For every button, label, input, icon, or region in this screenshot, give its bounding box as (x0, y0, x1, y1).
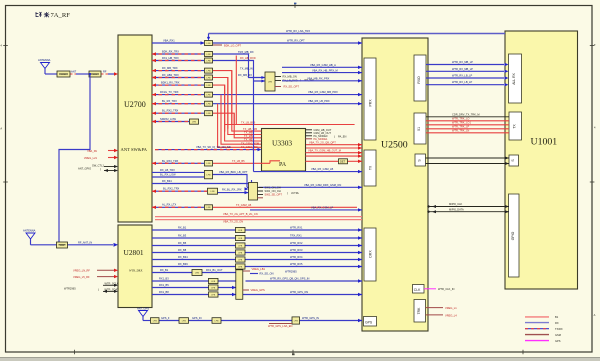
U2700 supply pin VBAT (87, 149, 118, 153)
svg-text:SW2_SD_OPT: SW2_SD_OPT (265, 193, 283, 197)
svg-text:VBA_MB_RX_PRX: VBA_MB_RX_PRX (307, 76, 330, 80)
filter rowTXLB (205, 205, 213, 210)
svg-text:ANT SW&PA: ANT SW&PA (121, 147, 148, 152)
filter drx3 (236, 243, 246, 248)
svg-text:DRX: DRX (369, 250, 373, 258)
IC U2500 transceiver block (362, 38, 428, 331)
frame border crossing ticks (3, 45, 8, 47)
svg-text:LFB: LFB (238, 245, 243, 247)
svg-text:GPS_IN: GPS_IN (192, 316, 202, 320)
svg-text:RX_MB_TRX: RX_MB_TRX (162, 66, 178, 70)
legend line RX (525, 322, 549, 324)
U2801 SPI pins (64, 281, 119, 293)
svg-text:DET: DET (340, 160, 346, 164)
svg-text:}: } (334, 135, 335, 139)
filter rowLB (205, 161, 213, 166)
wire DRX row4 (152, 248, 362, 254)
svg-text:TX/RX: TX/RX (555, 327, 563, 331)
U2500 port X1 (414, 113, 426, 144)
U2801 supply pin 1 (73, 269, 118, 273)
svg-text:AL_RX_LTX: AL_RX_LTX (162, 203, 176, 207)
svg-text:U3303: U3303 (272, 139, 292, 148)
filter rowB8 (208, 188, 218, 194)
svg-text:LFB: LFB (206, 174, 211, 176)
svg-text:U2700: U2700 (124, 100, 146, 109)
wire TX IQ bundle to U1001 (426, 112, 509, 133)
svg-text:LFB: LFB (206, 85, 211, 87)
svg-text:}: } (287, 191, 288, 195)
svg-text:LFB: LFB (206, 113, 211, 115)
svg-text:LFB: LFB (206, 43, 211, 45)
svg-text:LFB: LFB (206, 104, 211, 106)
legend line TXRX (525, 328, 549, 330)
svg-text:RX_SD_ON: RX_SD_ON (260, 272, 274, 276)
filter drx1 (236, 227, 246, 232)
IC U3303 power amplifier block (262, 129, 306, 172)
U2500 port TRK (414, 300, 426, 323)
wire RX LB2 row pair (152, 168, 249, 191)
filter FL2702 (89, 71, 101, 77)
wire PRX feed 2 (282, 68, 362, 74)
wire DRX row1 (152, 226, 362, 232)
svg-text:WTR_TRK_LO: WTR_TRK_LO (452, 117, 469, 121)
filter gps1 (151, 318, 160, 324)
svg-text:WTR_CLK_IN: WTR_CLK_IN (438, 287, 455, 291)
svg-text:LFB: LFB (206, 77, 211, 79)
svg-text:WTR_RX_LB_LP: WTR_RX_LB_LP (452, 80, 472, 84)
svg-text:ANT: ANT (71, 70, 77, 74)
wire DRX aux row c (152, 283, 236, 289)
svg-text:WTR_RX3: WTR_RX3 (290, 248, 303, 252)
wire PA feedback pair (306, 149, 363, 158)
svg-text:SW2_ON_OH: SW2_ON_OH (265, 189, 281, 193)
svg-text:LFB: LFB (211, 281, 216, 283)
svg-text:VBA_RX_GSM_MB_PRX: VBA_RX_GSM_MB_PRX (308, 90, 338, 94)
svg-text:PA_MODE1: PA_MODE1 (314, 137, 328, 141)
svg-text:WTR_GPS_LNA_EN: WTR_GPS_LNA_EN (268, 324, 292, 328)
wire U2700 row1 (152, 37, 241, 48)
svg-text:RX1_HB_TRX: RX1_HB_TRX (162, 56, 179, 60)
svg-text:U2500: U2500 (381, 140, 408, 151)
svg-text:VREG_GPS: VREG_GPS (251, 288, 266, 292)
filter rowLB2 tall (205, 170, 213, 178)
wire WTR RX top bundle 2 (426, 67, 509, 73)
svg-text:LFB: LFB (210, 191, 215, 193)
wire U2700 row2 diff pair (152, 49, 265, 77)
svg-text:GPS: GPS (555, 339, 561, 343)
wire TX IQ dashed control (155, 145, 262, 151)
wire VBA TX APT pair (306, 140, 362, 149)
svg-text:{: { (98, 288, 99, 292)
svg-text:WTR_RX5: WTR_RX5 (290, 262, 303, 266)
U2500 port GPS (364, 317, 377, 327)
wire GPS chain (143, 316, 362, 322)
frame zone tick top (294, 3, 296, 5)
antenna ANT2801 diversity (23, 229, 36, 245)
svg-text:LFB: LFB (206, 207, 211, 209)
svg-text:VREG_L1: VREG_L1 (445, 306, 457, 310)
svg-text:LFB: LFB (238, 259, 243, 261)
U1001 port TX (509, 112, 522, 140)
U2500 port RXOUT (414, 55, 426, 101)
filter row1 (205, 41, 213, 46)
svg-text:A: A (0, 127, 2, 131)
svg-text:LFB: LFB (195, 272, 200, 274)
filter row8 (205, 101, 213, 106)
PA output pins (306, 128, 347, 141)
svg-text:LFB: LFB (238, 252, 243, 254)
svg-text:RX_SD_OPT: RX_SD_OPT (284, 85, 300, 89)
svg-text:WTR_GPS_IN: WTR_GPS_IN (302, 316, 319, 320)
svg-text:WTR_DRX: WTR_DRX (129, 270, 143, 273)
svg-text:WTR_RX_MB_LP: WTR_RX_MB_LP (452, 60, 473, 64)
svg-text:RX_B39: RX_B39 (178, 262, 188, 266)
svg-text:TX_MB_IN: TX_MB_IN (240, 66, 253, 70)
svg-text:SW_CTL1: SW_CTL1 (92, 163, 105, 167)
svg-text:RX_B34: RX_B34 (178, 255, 188, 259)
wire DRX aux row a (152, 267, 297, 276)
svg-text:VBA_RX_GSM_DRX_GSM_ON: VBA_RX_GSM_DRX_GSM_ON (304, 183, 341, 187)
svg-text:LFB: LFB (238, 266, 243, 268)
svg-text:RXO: RXO (417, 76, 421, 84)
wire B8 TRX row (152, 187, 249, 195)
filter drxa (192, 270, 202, 276)
svg-text:LFB: LFB (238, 238, 243, 240)
svg-text:CDR_DRV_TX_TRK_M: CDR_DRV_TX_TRK_M (452, 112, 479, 116)
svg-text:VBA_RX_GSM_HB_A: VBA_RX_GSM_HB_A (310, 63, 336, 67)
svg-text:RX_HB_RXD: RX_HB_RXD (240, 56, 256, 60)
svg-text:VBA_TX_GSM_HB_OUT_M: VBA_TX_GSM_HB_OUT_M (308, 149, 341, 153)
svg-text:7A_RF: 7A_RF (51, 12, 71, 19)
wire DRX aux row d (152, 290, 362, 296)
wire GPS lna supply (268, 324, 292, 328)
svg-text:VREG_L5_RF: VREG_L5_RF (73, 275, 90, 279)
wire RX aux to U2500 (213, 39, 362, 45)
svg-text:WTR_SDAT: WTR_SDAT (105, 288, 119, 292)
lna U3901 (292, 317, 300, 324)
svg-text:LFB: LFB (211, 287, 216, 289)
svg-text:MIPI0_DATA: MIPI0_DATA (449, 207, 464, 211)
svg-text:ANTENNA: ANTENNA (23, 229, 36, 233)
svg-text:LFB: LFB (206, 60, 211, 62)
U2500 port S (415, 154, 426, 166)
svg-text:RX1G_TX_TRX: RX1G_TX_TRX (160, 90, 179, 94)
filter row10 (190, 119, 199, 124)
wire WTR RX top bundle 4 (426, 80, 509, 86)
svg-text:WTR_RX_OPT: WTR_RX_OPT (287, 39, 305, 43)
filter row5 (205, 75, 213, 80)
svg-text:VREG_L21: VREG_L21 (84, 156, 98, 160)
svg-text:WTR_RX2: WTR_RX2 (290, 241, 303, 245)
svg-text:X1: X1 (417, 127, 421, 131)
lna U2802 (236, 270, 265, 300)
wire GSM feedback row (152, 179, 252, 184)
svg-text:LFB: LFB (206, 163, 211, 165)
svg-text:GPS: GPS (365, 321, 373, 325)
svg-text:LFB: LFB (214, 320, 219, 322)
svg-text:RF: RF (103, 70, 107, 74)
svg-text:RX1_B5: RX1_B5 (159, 283, 169, 287)
filter FL2701 (57, 71, 70, 77)
U1001 port S (509, 155, 519, 166)
wire TX GSM LB row (152, 203, 357, 209)
IC U1001 baseband block (505, 31, 578, 289)
svg-text:SW1_ON_OH: SW1_ON_OH (265, 186, 281, 190)
svg-text:VBA_RX_HB_PRX_M: VBA_RX_HB_PRX_M (312, 68, 338, 72)
svg-text:VBA_TX_2G_QB_QPT: VBA_TX_2G_QB_QPT (309, 140, 336, 144)
svg-text:WTR_RX1: WTR_RX1 (290, 226, 303, 230)
svg-text:VBA_RX_GSM_LB: VBA_RX_GSM_LB (311, 167, 333, 171)
svg-text:U2801: U2801 (124, 248, 144, 257)
svg-text:LFB: LFB (206, 54, 211, 56)
svg-text:WTR_TRK_LP: WTR_TRK_LP (452, 125, 469, 129)
svg-text:RX1_B8: RX1_B8 (159, 290, 169, 294)
svg-text:TX_GSM_LB: TX_GSM_LB (236, 203, 252, 207)
svg-text:TRX_MB_RX: TRX_MB_RX (238, 50, 254, 54)
svg-text:MIPI0_CLK: MIPI0_CLK (449, 202, 463, 206)
wire DRX row5 (152, 255, 362, 261)
svg-text:VBA_RX_BDK_LB_OPT: VBA_RX_BDK_LB_OPT (219, 170, 248, 174)
U2500 port DRX (364, 228, 376, 281)
svg-text:BDK1_RX_TRX: BDK1_RX_TRX (161, 81, 180, 85)
svg-text:RF_ANT_IN: RF_ANT_IN (78, 240, 92, 244)
diplexer U2702 (261, 72, 315, 91)
svg-text:ANT_GPIO: ANT_GPIO (78, 167, 91, 171)
U2500 port PRX (364, 58, 376, 140)
svg-text:RX_B8: RX_B8 (178, 248, 187, 252)
filter row7 (205, 92, 213, 97)
legend line GPS (525, 340, 549, 342)
svg-text:LFB: LFB (238, 230, 243, 232)
frame zone tick bottom (292, 353, 295, 355)
svg-text:VREG_LB1: VREG_LB1 (252, 267, 266, 271)
svg-text:RX_MB_ON: RX_MB_ON (283, 75, 297, 79)
wire WTR RX top bundle 1 (426, 60, 509, 66)
filter drx6 (236, 264, 246, 269)
svg-text:RX_B5: RX_B5 (178, 241, 187, 245)
filter drx2 (236, 235, 246, 240)
wire DRX aux row b long (152, 277, 362, 283)
svg-text:RX1_B3: RX1_B3 (159, 277, 169, 281)
svg-text:BL_RX_LOW: BL_RX_LOW (160, 173, 176, 177)
wire ANT junction to diversity path (59, 74, 90, 242)
antenna ANT2700 main (38, 58, 51, 74)
wire DRX row6 (152, 262, 362, 268)
wire DRX row2 (152, 234, 362, 240)
svg-text:PRX: PRX (369, 99, 373, 107)
svg-text:RX1_B1_OUT: RX1_B1_OUT (206, 268, 223, 272)
wire VBA TX 2G pair rails (155, 212, 362, 223)
svg-text:ANTENNA: ANTENNA (38, 58, 51, 62)
svg-text:LFB: LFB (206, 70, 211, 72)
U2500 port CLK (413, 285, 425, 294)
svg-text:SDRX2_LOW: SDRX2_LOW (160, 117, 177, 121)
filter drx4 (236, 250, 246, 255)
U2500 port TX (364, 150, 376, 186)
svg-text:WTR_SCLK: WTR_SCLK (105, 281, 119, 285)
svg-text:TX: TX (513, 124, 517, 129)
svg-text:TX_LB_B5: TX_LB_B5 (232, 159, 245, 163)
svg-text:TX_GSM_900B: TX_GSM_900B (241, 141, 259, 145)
filter drx5 (236, 257, 246, 262)
filter row3 (205, 58, 213, 63)
svg-text:BL_RX3_TRX: BL_RX3_TRX (162, 159, 179, 163)
TX fan wire nest into PA (218, 56, 262, 149)
svg-text:PA: PA (279, 162, 287, 168)
filter row4 (205, 68, 213, 73)
U2700 supply pin VREG (84, 156, 118, 160)
svg-text:BDK_LO_OPT: BDK_LO_OPT (224, 43, 241, 47)
wire diversity feed (31, 240, 119, 246)
svg-text:RX_B34: RX_B34 (162, 179, 172, 183)
svg-text:VREG_LN_RF: VREG_LN_RF (73, 269, 90, 273)
bottom window edge strip (0, 358, 600, 361)
svg-text:VREG_L4: VREG_L4 (445, 313, 457, 317)
svg-text:{: { (100, 167, 101, 171)
svg-text:LFB: LFB (268, 82, 273, 84)
svg-text:PA_EN: PA_EN (338, 135, 346, 139)
wire DRX long to U2500 (259, 183, 363, 189)
svg-text:A: A (594, 313, 596, 317)
svg-text:LFB: LFB (182, 320, 187, 322)
filter gps2 (179, 318, 189, 324)
svg-text:TX_HB: TX_HB (244, 138, 253, 142)
svg-text:LFB: LFB (153, 320, 158, 322)
wire U2700 row8 diff pair (152, 99, 362, 105)
svg-text:VBA_PA: VBA_PA (87, 149, 97, 153)
wire DRX GSM long (250, 205, 362, 211)
svg-text:RX: RX (555, 321, 559, 325)
wire WTR RX top bundle 3 (426, 74, 509, 80)
wire MIPI pair (427, 202, 509, 213)
svg-text:VBA_RX_LB_PRX: VBA_RX_LB_PRX (308, 99, 330, 103)
svg-text:VBA_TX_SD_IQ_SD_ON_SD: VBA_TX_SD_IQ_SD_ON_SD (196, 145, 231, 149)
U1001 port ALLRX (509, 54, 522, 103)
filter row9 (205, 111, 213, 116)
svg-text:WTR2965: WTR2965 (64, 287, 76, 291)
filter gps3 (212, 318, 221, 324)
svg-text:ANT_GPS: ANT_GPS (137, 307, 149, 311)
svg-text:TRX_RX1: TRX_RX1 (290, 234, 302, 238)
svg-text:GPS_F: GPS_F (161, 316, 170, 320)
wire TRK supply pair (426, 306, 458, 317)
legend line B1 (525, 316, 549, 318)
svg-text:B1: B1 (555, 315, 559, 319)
filter row2 (205, 52, 213, 57)
wire U2700 row5 diff pair (152, 73, 252, 129)
svg-text:BDK_RX_TRX: BDK_RX_TRX (162, 49, 179, 53)
U2801 supply pin 2 (73, 275, 118, 279)
svg-text:TX_HB_WB: TX_HB_WB (243, 127, 257, 131)
wire U2700 row10 diff pair (152, 117, 189, 123)
svg-text:TRK: TRK (417, 307, 421, 315)
svg-text:LFB: LFB (206, 94, 211, 96)
wire U2700 row7 diff pair (152, 90, 362, 96)
wire PA det with resistor (306, 160, 363, 163)
svg-text:RX_LB_TRX: RX_LB_TRX (160, 168, 175, 172)
svg-text:BL_RX_TRX: BL_RX_TRX (162, 99, 177, 103)
filter row6 (205, 83, 213, 88)
svg-text:U1001: U1001 (531, 137, 558, 148)
resistor R3303 (339, 159, 348, 164)
TX fan wire B8 (225, 124, 355, 126)
filter drxc (209, 285, 219, 290)
sheet title (36, 12, 50, 17)
svg-text:BL_RX2_TRX: BL_RX2_TRX (162, 109, 179, 113)
wire U2700 row6 diff pair (152, 81, 225, 132)
svg-text:WTR_GPS_ON: WTR_GPS_ON (290, 290, 308, 294)
svg-text:TX_GSM_850: TX_GSM_850 (241, 145, 258, 149)
svg-text:TX_MB: TX_MB (244, 131, 253, 135)
svg-text:LFB: LFB (211, 294, 216, 296)
svg-text:WTR_RX_GPS_QB_QN_GPS_IN: WTR_RX_GPS_QB_QN_GPS_IN (270, 277, 309, 281)
svg-text:LFB: LFB (192, 121, 197, 123)
svg-text:RX_B1: RX_B1 (178, 226, 187, 230)
svg-text:WTR_RX4: WTR_RX4 (290, 255, 303, 259)
inductor L2801 (57, 242, 68, 248)
svg-text:VBA_RX1: VBA_RX1 (163, 38, 175, 42)
svg-text:VBA_TX_2G_APT_B_2G_CN: VBA_TX_2G_APT_B_2G_CN (223, 212, 258, 216)
filter drxb1 (209, 278, 219, 283)
wire PRX feed 1 (282, 63, 362, 69)
IC U2801 diversity receiver block (118, 225, 152, 308)
svg-text:CLK: CLK (414, 288, 421, 292)
svg-text:GPIO: GPIO (511, 231, 515, 240)
wire low band long to TX port (254, 82, 363, 174)
svg-text:TX: TX (369, 165, 373, 170)
svg-text:WTR_TRK_LO1: WTR_TRK_LO1 (452, 121, 471, 125)
wire DRX row3 (152, 241, 362, 247)
svg-text:LFB: LFB (294, 320, 299, 322)
svg-text:WTR_RX_LB_LP: WTR_RX_LB_LP (452, 74, 472, 78)
wire U2700 row4 diff pair (152, 66, 253, 125)
svg-text:WTR_RX_MB_LP: WTR_RX_MB_LP (452, 67, 473, 71)
svg-text:JCTRL: JCTRL (291, 191, 300, 195)
wire U2700 row9 diff pair (152, 109, 234, 125)
svg-text:RX_MB_RX: RX_MB_RX (238, 73, 252, 77)
main RF feed wire with matching network (45, 70, 118, 76)
svg-text:RX_B1: RX_B1 (160, 268, 169, 272)
svg-text:BL_RX2_TRX: BL_RX2_TRX (163, 187, 180, 191)
wire RX LB row with filter (152, 159, 280, 165)
wire long RX out to U1001 (209, 29, 506, 38)
svg-text:WTR2965: WTR2965 (285, 270, 297, 274)
svg-text:RX_BL_RX_JRX: RX_BL_RX_JRX (222, 188, 242, 192)
U1001 port GRD (509, 194, 520, 277)
svg-text:RX_B3: RX_B3 (178, 234, 187, 238)
svg-text:RX_HB2_TRX: RX_HB2_TRX (162, 73, 179, 77)
svg-text:ALL RX: ALL RX (512, 72, 516, 84)
wire SSBI pair (426, 157, 510, 166)
legend line GSM (525, 334, 549, 336)
wire WTR CLK magenta (424, 287, 455, 291)
wire PRX feed 3 (282, 76, 362, 82)
IC U2700 antenna switch block (118, 35, 152, 222)
U2700 control pins ANT_GPIO (78, 163, 118, 172)
svg-text:GSM: GSM (555, 333, 561, 337)
wire U2700 row3 diff pair (152, 56, 265, 81)
antenna ANT_GPS (137, 307, 149, 321)
switch U2703 (249, 183, 300, 201)
svg-text:VBA_TX_2G_ON: VBA_TX_2G_ON (223, 220, 243, 224)
svg-text:VBA_RX_GSM_LP: VBA_RX_GSM_LP (311, 205, 333, 209)
svg-text:WTR_RX_LNA_TRX: WTR_RX_LNA_TRX (286, 29, 310, 33)
svg-text:WTR_TRK_LN: WTR_TRK_LN (452, 129, 469, 133)
filter drxd (209, 292, 219, 297)
